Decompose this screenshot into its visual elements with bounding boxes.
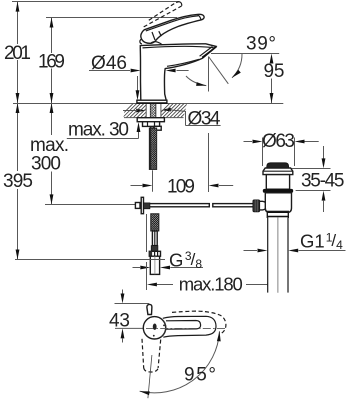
spout outlet vertical ray [208, 57, 210, 92]
dimension 169 [38, 18, 177, 136]
label G1 1/4 [244, 230, 346, 252]
drain knob [253, 200, 260, 212]
svg-text:35-45: 35-45 [301, 171, 345, 192]
faucet: counter hatch left [119, 103, 158, 117]
svg-text:Ø63: Ø63 [262, 131, 295, 152]
top view: body dots [153, 324, 165, 337]
top view: center axis line [146, 327, 227, 329]
dimension D63 [244, 131, 319, 166]
drain flange [263, 168, 293, 175]
hose attachment block [154, 126, 161, 130]
mounting nut [143, 122, 160, 127]
svg-text:39°: 39° [246, 33, 276, 54]
svg-text:43: 43 [109, 310, 130, 331]
dimension D34 [123, 108, 221, 130]
top view: dashed lever up position [172, 311, 226, 334]
svg-text:Ø34: Ø34 [188, 108, 221, 129]
angle 39 deg label [211, 33, 279, 54]
hose G3/8 pipe [150, 256, 159, 274]
dimension 201 [4, 2, 180, 172]
top view: body circle edge through lever [161, 319, 166, 337]
handle raised dashed [144, 2, 182, 27]
aerator face [200, 46, 217, 59]
svg-text:Ø46: Ø46 [91, 53, 127, 74]
drain chamber [265, 193, 291, 213]
svg-text:max. 30: max. 30 [68, 119, 129, 140]
counter top line [13, 103, 283, 105]
drain neck [266, 175, 289, 190]
flow curve arrow [186, 76, 207, 87]
mounting washer [137, 118, 164, 122]
label G3/8 [133, 249, 204, 271]
handle lever [141, 14, 204, 43]
svg-text:169: 169 [38, 51, 65, 72]
dimension D46 [89, 53, 189, 74]
drain O-ring [263, 189, 293, 193]
dimension max.300 [30, 103, 136, 205]
drain plug cap [267, 163, 289, 168]
svg-text:395: 395 [3, 171, 33, 192]
drain knob stem [259, 201, 267, 210]
hose hex nut dark [151, 246, 158, 252]
drain collar [267, 211, 288, 217]
dimension 95 [264, 54, 285, 104]
angle 95 arc [139, 331, 221, 395]
flexible hose lower braid [151, 214, 159, 231]
rod tee joint [135, 197, 150, 213]
top view: lever tab [147, 304, 152, 314]
pull rod reference extension [146, 214, 148, 252]
angle 39 arc [231, 54, 242, 79]
dimension 109 [131, 133, 234, 197]
handle pivot cap [140, 39, 162, 45]
dimension max.180 [147, 262, 278, 295]
svg-text:max.180: max.180 [179, 274, 243, 295]
top view: 43 dimension [109, 290, 149, 343]
pull rod horizontal [136, 204, 253, 207]
hose sleeve [152, 231, 157, 246]
drain tailpipe [268, 217, 288, 292]
flexible hose upper braid [149, 128, 156, 170]
faucet: counter hatch right [156, 103, 195, 117]
svg-text:300: 300 [31, 154, 61, 175]
svg-text:109: 109 [167, 176, 195, 197]
top view: solid lever [163, 316, 216, 337]
hose wide nut [149, 251, 160, 256]
dimension max.30 [67, 76, 141, 140]
top view: body circle [143, 317, 165, 339]
top view: lever axis extension [148, 355, 152, 398]
top view: lever inner contour [166, 321, 201, 330]
base plate [137, 100, 167, 103]
top view: dashed lever down position [142, 339, 161, 372]
faucet body [140, 44, 216, 100]
dimension 395 [3, 103, 165, 260]
svg-text:95: 95 [264, 61, 285, 82]
faucet threaded shank [150, 103, 156, 128]
svg-text:201: 201 [4, 43, 31, 64]
spout outlet slanted ray [209, 57, 229, 84]
svg-text:95°: 95° [184, 365, 216, 386]
dimension 35-45 [290, 146, 345, 212]
